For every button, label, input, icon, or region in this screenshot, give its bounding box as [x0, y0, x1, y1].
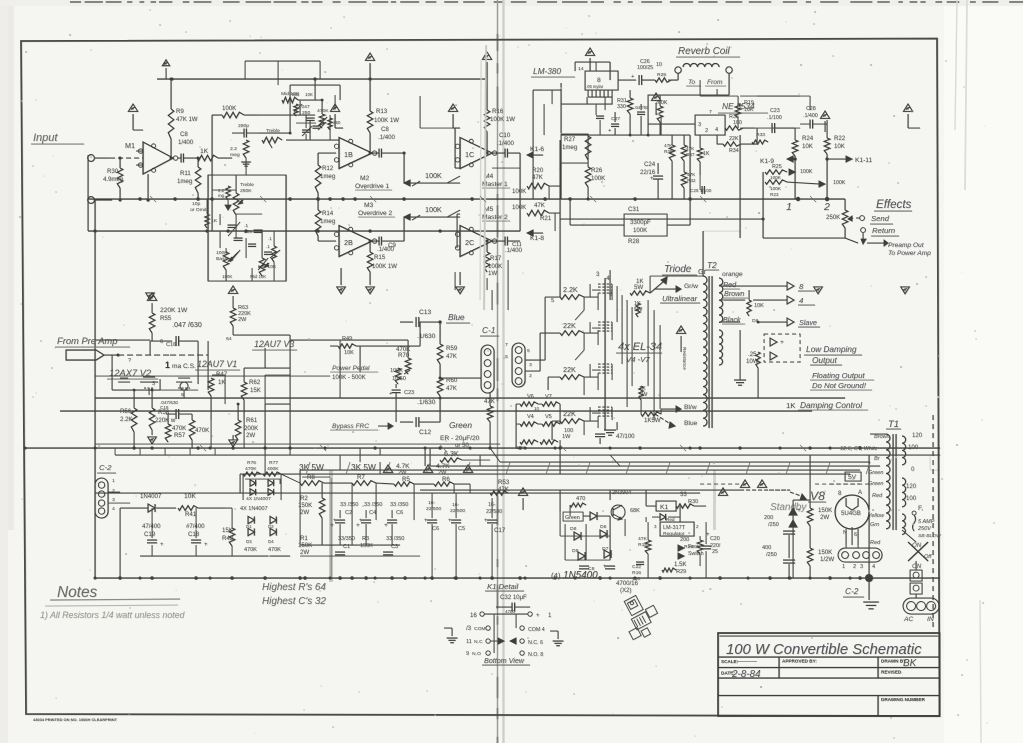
- wires T1 to AC: [870, 433, 886, 435]
- left bias verticals: [120, 507, 140, 509]
- wires cathode net: [516, 403, 520, 405]
- mid bus y231: [88, 230, 520, 232]
- EL34 cathodes wires: [604, 422, 606, 430]
- harness step wires: [289, 448, 291, 455]
- cross wires center: [239, 474, 241, 493]
- octal socket: [838, 548, 882, 562]
- hazard triangle LM380: [585, 48, 594, 55]
- capacitor C8 relay: [579, 565, 589, 567]
- wire into NE5534: [661, 123, 695, 125]
- tone stack inner caps: [248, 243, 256, 245]
- title col divider a: [778, 657, 780, 678]
- hazard triangle C: [518, 488, 527, 496]
- EL34 extra verticals: [589, 284, 591, 297]
- tube V2 internals: [140, 381, 158, 383]
- title row divider 2: [718, 667, 940, 669]
- wire left effects vertical: [762, 172, 764, 238]
- hazard triangle below 2C: [456, 287, 465, 294]
- wire verticals top area: [609, 62, 611, 80]
- title row divider 1: [718, 656, 940, 658]
- wire from 1C to K1 rows: [492, 167, 520, 169]
- transformer T2 primary: [703, 276, 707, 426]
- jack Send: [860, 216, 865, 221]
- rectifier tube 5U4GB: [835, 495, 869, 529]
- wire T2 HT riser: [702, 231, 704, 276]
- grid bias drops: [583, 297, 585, 310]
- resistor R27 1meg loop: [561, 134, 588, 163]
- IC NE-5534 box: [695, 115, 725, 135]
- wire V8 standby riser: [809, 455, 811, 500]
- hazard triangle bias2: [423, 465, 432, 473]
- resistor 1K: [197, 155, 218, 161]
- wire bus y135 reverb: [561, 134, 690, 136]
- capacitor C11 .1/400: [492, 240, 505, 242]
- top rail: [157, 78, 487, 80]
- wires relay area: [559, 490, 561, 512]
- resistor R26 100K: [585, 167, 591, 187]
- wire bundle corner right: [930, 455, 938, 470]
- ground K1 left: [451, 628, 453, 636]
- wire v3 drop: [264, 348, 266, 368]
- wire zigzag bundle: [245, 479, 280, 484]
- resistor R31 330: [627, 98, 633, 114]
- EL34 plate риsers extra: [647, 300, 649, 386]
- tube V1 structure: [197, 341, 199, 384]
- title row divider 3: [718, 677, 940, 679]
- ground speaker: [734, 379, 746, 381]
- input jack J1: [88, 155, 95, 162]
- hazard triangle x905 low: [901, 287, 910, 294]
- wire standby caps: [788, 535, 790, 558]
- diodes standby: [789, 508, 797, 515]
- op-amp 2C: [460, 226, 492, 257]
- heater wire 2: [430, 465, 880, 467]
- wire y340 to C13: [290, 339, 408, 341]
- right margin lighter paper: [944, 0, 1023, 743]
- wire x869 drop: [868, 455, 870, 578]
- EL34 area density: [597, 293, 599, 310]
- LM380 pin comb: [587, 90, 589, 97]
- hazard triangle x908 top: [903, 104, 912, 111]
- wire standby harness 1: [500, 447, 530, 449]
- wire tone internal: [235, 175, 237, 193]
- ground dot M1: [146, 198, 149, 201]
- scanner edge artifact line: [70, 1, 81, 3]
- hazard triangle below 2B: [366, 287, 375, 294]
- label Preamp Out: [867, 242, 884, 244]
- T1 secondary top: [902, 436, 906, 465]
- switch ON OFF X: [908, 542, 928, 561]
- hazard triangle x150 low: [146, 293, 155, 300]
- title row divider 4: [718, 695, 940, 697]
- wires above masters: [420, 127, 453, 129]
- wire v2 row: [112, 389, 160, 391]
- arrow overdrive 1 switch: [412, 181, 420, 186]
- wire r63 to c16: [233, 334, 290, 336]
- wire x690 column lower: [689, 199, 691, 225]
- top right extra wires: [700, 95, 738, 97]
- resistor 1K below M1 node: [205, 214, 209, 228]
- resistor 470K mid: [189, 420, 195, 440]
- masters to effects wires: [520, 230, 560, 232]
- wires bias caps: [339, 510, 341, 518]
- tube stage extra wires: [95, 339, 150, 341]
- wires bias row: [281, 474, 300, 483]
- wire riser x455 top: [454, 62, 456, 110]
- heatsink packages doodle: [615, 590, 664, 642]
- hazard triangle x818 low: [814, 287, 823, 294]
- wire reverb to effects: [689, 135, 691, 199]
- wire y556 bias: [140, 555, 290, 557]
- transformer T1 primary winding: [886, 434, 890, 529]
- 2.2meg stub: [245, 158, 247, 175]
- wire bundle from masters down: [454, 272, 456, 290]
- tone stack inner pot arrows: [230, 250, 240, 262]
- grid stopper stubs: [592, 289, 598, 291]
- ink smudge streak lower middle: [329, 470, 333, 582]
- wire left col x88: [87, 155, 89, 231]
- resistor 1K NE: [697, 148, 703, 162]
- wire harness diag top: [429, 448, 431, 466]
- hazard triangle x825 mid: [820, 111, 829, 118]
- reverb area extra: [560, 163, 562, 199]
- bus y455: [115, 454, 940, 456]
- arrow ultralinear: [655, 288, 678, 290]
- jack 8 ohm: [787, 282, 794, 290]
- diode across K1: [660, 514, 666, 520]
- bridge diodes upper: [248, 516, 254, 523]
- resistor 2.2meg lower with arrow: [226, 186, 230, 200]
- hazard triangle small top-left: [162, 60, 169, 66]
- left band verticals y440-478: [114, 448, 116, 455]
- hazard triangle bias1: [383, 465, 392, 473]
- switch triode arrow: [650, 281, 664, 293]
- arrow Blue: [655, 414, 672, 425]
- tube V2 triode lines: [149, 341, 151, 355]
- smudge near C17: [713, 470, 716, 530]
- fuse holder squares: [910, 570, 922, 581]
- tube V1 internals: [176, 381, 194, 383]
- jack Slave: [787, 318, 794, 326]
- arrow K1-8: [527, 232, 543, 234]
- wires c1 links: [440, 377, 481, 379]
- hazard triangle T2: [676, 326, 685, 334]
- wire top right rail: [575, 61, 937, 63]
- bus y493: [95, 492, 700, 494]
- heater wire 3: [300, 469, 860, 471]
- LED green: [590, 512, 597, 520]
- wires y376 long: [95, 375, 330, 377]
- label Green boxed: [563, 512, 583, 521]
- long wire y490 relay: [420, 489, 740, 491]
- tube internal electrodes: [176, 381, 192, 383]
- triangle down V3: [229, 440, 238, 447]
- resistor R13 100K 1W: [367, 111, 373, 133]
- dashed vertical inside right border: [932, 415, 934, 630]
- wires right of masters: [548, 186, 550, 199]
- resistor 100K treble feed: [222, 112, 244, 118]
- junction dots y448 extra: [373, 446, 376, 449]
- EL34 grid hatch 3: [598, 363, 612, 365]
- hazard triangle top rail: [365, 53, 374, 60]
- hazard triangles standby: [740, 480, 749, 488]
- right margin vertical streaks: [955, 0, 957, 130]
- pot bass arrow: [232, 252, 238, 258]
- op-amp 1C: [460, 138, 492, 169]
- wire vertical x560 mid: [559, 230, 561, 297]
- main ground bus: [95, 577, 940, 579]
- feedback mesh wires: [289, 85, 291, 100]
- EL34 grid hatch 4: [598, 406, 612, 408]
- title block outer box: [718, 633, 940, 716]
- resistor R12 1meg: [317, 153, 319, 165]
- wire x425 column: [424, 448, 426, 466]
- wire k1 9 row lines: [740, 127, 800, 129]
- wire x560 k1 column: [559, 440, 561, 455]
- wire tube area risers: [289, 335, 291, 368]
- jack damping -: [770, 352, 777, 360]
- tone stack box: [208, 175, 286, 281]
- wire x265 column: [264, 404, 266, 448]
- phase inverter wires: [439, 422, 441, 448]
- capacitor 47/100: [595, 433, 605, 435]
- tone stack extra wiring: [207, 175, 209, 281]
- wire y510 left: [225, 507, 232, 509]
- feedback mesh small parts: [294, 104, 298, 116]
- jack 4 ohm: [787, 296, 794, 304]
- relay area extra wires: [559, 512, 561, 536]
- bias mid bus y545: [300, 544, 400, 546]
- T2 secondary: [719, 278, 723, 322]
- hazard triangle NE5534: [651, 93, 660, 100]
- junction dots tone: [289, 132, 292, 135]
- scan dust specks: [629, 549, 631, 551]
- input jack J2: [88, 197, 95, 204]
- wires bias to relay: [559, 455, 561, 474]
- bridge diodes lower: [248, 528, 254, 535]
- reverb coil winding: [683, 63, 719, 67]
- resistor R9 47K 1W: [170, 79, 172, 109]
- resistor R14 1meg: [317, 199, 319, 210]
- wire speaker com: [719, 285, 724, 287]
- op-amp 2B: [339, 226, 372, 257]
- switch preamp out: [763, 237, 845, 239]
- op-amp 1B: [339, 138, 372, 169]
- wires near fold mid: [507, 260, 509, 310]
- hazard triangle top right: [482, 52, 491, 59]
- resistor R11 1meg: [197, 157, 200, 160]
- presence extra cap: [302, 129, 310, 131]
- left vertical main: [94, 199, 96, 578]
- left scan edge band: [0, 0, 14, 530]
- hazard triangle D: [718, 488, 727, 496]
- arrow K1-11: [827, 158, 849, 160]
- connector C-1 left: [481, 345, 494, 393]
- resistor 47K R35: [669, 145, 675, 161]
- hazard triangle bias3: [463, 465, 472, 473]
- tone stack interior extras: [228, 224, 237, 226]
- 220K R64 column: [328, 118, 332, 130]
- mid bus y199: [88, 198, 800, 200]
- bus y448: [25, 447, 940, 449]
- wires K1 detail verticals: [493, 614, 495, 653]
- effects bus y398: [95, 397, 845, 399]
- dashes near V8: [815, 483, 860, 485]
- connector C-2 left oval: [95, 478, 108, 518]
- junction dots y231: [93, 229, 96, 232]
- graphite streak near masters: [484, 45, 486, 310]
- wire drop x690 effects: [689, 199, 691, 225]
- heater wire 1: [500, 461, 870, 463]
- arrow marks on overdrive feedbacks: [447, 176, 460, 183]
- resistor 47K R32: [681, 172, 687, 188]
- tube pins 5U4GB: [845, 529, 847, 545]
- T2 core: [708, 276, 710, 428]
- hazard triangle left low: [337, 287, 346, 294]
- jack Return: [861, 228, 866, 233]
- center fold line dark: [497, 0, 499, 743]
- extra junctions main bus: [196, 197, 199, 200]
- arrow K1-6: [527, 154, 543, 156]
- heater wire 4: [240, 473, 850, 475]
- resistor 1K5W screen4: [641, 412, 661, 416]
- resistor R16 100K 1W: [484, 110, 490, 132]
- extra dots ground bus: [118, 576, 121, 579]
- connector C-1 right: [512, 343, 525, 387]
- triangle down V2: [148, 437, 157, 444]
- low damping dashed box: [764, 334, 800, 362]
- wire effects bus right: [800, 198, 845, 200]
- hazard triangle above 1C: [448, 104, 457, 111]
- EL34 grid hatch 2: [598, 321, 612, 323]
- resistor R17 100K 1W: [486, 241, 488, 252]
- fuse symbol: [912, 511, 916, 515]
- title col divider b: [877, 657, 879, 678]
- reverb transducer From: [726, 67, 732, 73]
- standby extra dashes: [700, 483, 740, 485]
- bus y444 light: [95, 443, 500, 445]
- bias feed diagonals: [575, 310, 584, 320]
- wire preamp dashes: [118, 354, 170, 356]
- resistor R15 100K 1W: [369, 241, 371, 252]
- foot switch arrows: [678, 545, 684, 551]
- wires standby dashes: [740, 489, 790, 491]
- heater band ticks: [306, 462, 310, 474]
- wires speaker area: [724, 285, 787, 287]
- label 5V boxed: [845, 472, 861, 481]
- wire tone stack left vertical: [211, 115, 213, 231]
- wire M1 inputs: [147, 174, 149, 200]
- bias bridge wires: [242, 474, 244, 500]
- relay K1 coil box: [656, 501, 676, 511]
- arrow Bl/w: [661, 408, 678, 410]
- diode pair bias: [250, 480, 256, 486]
- resistor R30 4.9meg: [119, 158, 121, 168]
- jack damping +: [770, 338, 777, 346]
- arrow K1-9: [788, 158, 795, 160]
- rail risers to R13 R16: [369, 64, 371, 79]
- ground K1 right: [557, 631, 559, 639]
- T1 core lines: [892, 434, 894, 530]
- reverb down wires: [668, 79, 678, 81]
- arrow overdrive 2 switch: [412, 215, 420, 220]
- wires K1 area: [549, 185, 560, 187]
- AC connector: [903, 598, 939, 614]
- big junction dot: [865, 574, 873, 582]
- wire bias left bottom: [119, 508, 121, 578]
- psu lower bus: [300, 555, 420, 557]
- wire x290 column: [289, 368, 291, 448]
- fold smudge segments: [497, 34, 499, 51]
- hazard triangle stems low masters: [450, 290, 452, 300]
- top scan edge: [0, 0, 1023, 6]
- upper loop above tone stack: [245, 60, 320, 62]
- wire top reverb risers: [586, 97, 588, 104]
- output stage risers: [649, 276, 651, 293]
- wire x215 down from tone: [211, 231, 213, 248]
- resistor R29: [655, 78, 671, 82]
- junction dots psu bus: [150, 576, 153, 579]
- resistor 47K R37: [681, 145, 687, 161]
- center fold line light: [502, 0, 504, 743]
- effects bus y411: [60, 410, 812, 412]
- jack from preamp: [66, 350, 104, 360]
- wires grid feeds: [584, 296, 598, 298]
- wires phase inverter: [340, 397, 440, 399]
- IC LM-380 box: [585, 71, 618, 90]
- wire net above tubes: [94, 340, 96, 398]
- wires masters vertical: [454, 128, 456, 168]
- feedback 100K wire lower: [404, 217, 460, 241]
- T1 secondary mid: [902, 478, 906, 507]
- harness bundle steps: [240, 473, 300, 475]
- hazard triangle 220K: [147, 293, 156, 301]
- hazard triangle above 1B: [330, 104, 339, 111]
- reverb transducer To: [675, 67, 681, 73]
- LM380 area extra wires: [532, 90, 534, 199]
- V8 wires: [793, 499, 810, 501]
- reverb wires: [677, 73, 679, 80]
- wire y219 long: [560, 218, 740, 220]
- small slash ticks on buses: [150, 196, 156, 202]
- wire input to M1: [110, 157, 143, 159]
- arrow to V8: [790, 492, 804, 497]
- wire vertical x740: [739, 135, 741, 238]
- IC LM-317 Regulator: [660, 522, 694, 536]
- wires presence cluster: [258, 114, 315, 116]
- EL34 plate vertical: [604, 278, 606, 430]
- ground C-2: [868, 582, 870, 600]
- mid interconnect steps: [339, 455, 341, 470]
- title col divider c: [877, 696, 879, 717]
- wire x265 bias drop: [264, 448, 266, 474]
- psu extra verticals: [299, 483, 301, 545]
- hazard triangle R63: [228, 286, 237, 294]
- hazard triangle x133: [128, 104, 137, 111]
- heater diag wires: [490, 448, 500, 462]
- T1 secondary bottom: [902, 514, 905, 534]
- capacitor C9 .1/400: [372, 240, 379, 242]
- feedback 100K wire upper: [404, 153, 460, 183]
